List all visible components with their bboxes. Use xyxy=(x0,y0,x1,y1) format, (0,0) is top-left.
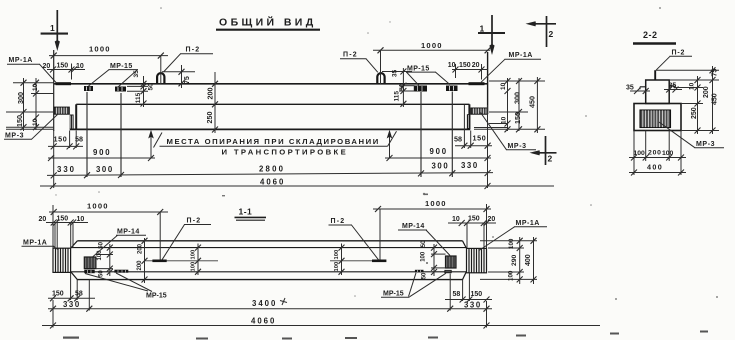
dimension row 330/300/2800/300/330 xyxy=(47,92,493,179)
section plate MP-3 (hatched) xyxy=(640,110,671,128)
section mark 2 (top) xyxy=(526,16,557,47)
plan left chamfers xyxy=(71,241,78,280)
svg-text:100: 100 xyxy=(97,250,103,261)
dimension 20/150/10 (top left end) xyxy=(43,63,86,80)
svg-text:75: 75 xyxy=(184,76,191,84)
svg-text:75: 75 xyxy=(712,69,719,77)
plan dimension 1000 (left) xyxy=(49,202,168,260)
svg-text:МР-1А: МР-1А xyxy=(516,220,540,227)
plan right end plate MP-1A (hatched) xyxy=(467,248,487,272)
plan inner top edge xyxy=(71,247,467,249)
plate MP-1A right (top face) xyxy=(469,82,485,85)
svg-text:330: 330 xyxy=(57,165,76,174)
svg-text:1-1: 1-1 xyxy=(239,207,253,217)
svg-text:200: 200 xyxy=(206,88,215,100)
svg-text:20: 20 xyxy=(488,216,496,223)
svg-text:200: 200 xyxy=(648,150,662,157)
dimension cluster 35/50/115 xyxy=(127,70,155,107)
plate MP-3 left (hatched) xyxy=(54,107,69,114)
svg-text:100: 100 xyxy=(421,251,427,262)
plan right chamfers xyxy=(463,241,467,280)
plan dimension 20/150/10 (left) xyxy=(39,216,89,249)
section bottom part outline xyxy=(634,104,681,131)
right step bar (hatched end strip) xyxy=(467,114,470,129)
dimension 1000 (top right) xyxy=(373,41,491,84)
right vertical dims 10/300/450/150/10 xyxy=(474,77,545,133)
svg-text:10: 10 xyxy=(500,82,507,90)
plan 50/100/50 dim right xyxy=(421,240,446,279)
svg-text:100: 100 xyxy=(508,270,515,281)
beam top edge xyxy=(54,83,488,85)
svg-text:115: 115 xyxy=(393,91,400,102)
svg-text:ОБЩИЙ ВИД: ОБЩИЙ ВИД xyxy=(219,16,317,29)
lifting loop P-2 left xyxy=(157,73,164,83)
svg-text:И ТРАНСПОРТИРОВКЕ: И ТРАНСПОРТИРОВКЕ xyxy=(222,147,349,156)
svg-text:МР-3: МР-3 xyxy=(508,143,527,150)
plan outer top edge xyxy=(77,240,462,242)
beam middle joint line xyxy=(76,103,469,105)
note text МЕСТА ОПИРАНИЯ xyxy=(154,131,397,156)
dimension 150/58 (lower left) xyxy=(48,131,83,150)
svg-text:400: 400 xyxy=(525,254,532,266)
plan MP-14 square left (hatched) xyxy=(84,257,96,269)
svg-text:100: 100 xyxy=(334,262,340,272)
svg-text:10: 10 xyxy=(452,216,460,223)
svg-text:10: 10 xyxy=(76,63,84,70)
plan dimension 58/150 (lower right) xyxy=(445,273,492,303)
svg-text:10: 10 xyxy=(689,82,696,90)
svg-text:100: 100 xyxy=(662,150,674,157)
plan loop bar right xyxy=(330,259,386,262)
svg-text:330: 330 xyxy=(461,161,479,170)
svg-text:1000: 1000 xyxy=(425,199,447,208)
plate MP-15 c xyxy=(414,86,427,92)
dimension 35 (section left) xyxy=(626,85,650,95)
plate MP-1A left (top face) xyxy=(56,82,72,85)
plan 50/100/50 dim left xyxy=(96,241,113,277)
beam bottom edge xyxy=(70,128,471,130)
svg-text:50: 50 xyxy=(421,240,427,247)
svg-text:50: 50 xyxy=(98,270,104,277)
svg-text:35: 35 xyxy=(133,70,140,78)
svg-text:П-2: П-2 xyxy=(331,218,346,225)
left step bar (hatched end strip) xyxy=(70,115,74,130)
left vertical dims 300/150 and 10/10 xyxy=(6,78,54,131)
svg-text:58: 58 xyxy=(75,135,83,144)
section top part outline xyxy=(640,80,674,104)
label MP-1A left + leader xyxy=(7,57,56,83)
svg-text:МР-3: МР-3 xyxy=(5,133,24,140)
svg-text:300: 300 xyxy=(16,92,25,104)
plan loop cross-dim right 100/100 xyxy=(334,244,345,276)
plan loop width dim 200/200 (left) xyxy=(137,238,147,283)
svg-text:150: 150 xyxy=(459,62,471,69)
label MP-3 left + leader xyxy=(4,115,58,140)
label MP-1A right + leader xyxy=(481,52,541,82)
svg-text:4060: 4060 xyxy=(251,317,276,326)
svg-text:400: 400 xyxy=(647,163,663,172)
plan loop cross-dim left 100/100 xyxy=(191,244,202,276)
label MP-3 (section) + leader xyxy=(659,122,724,148)
plan right-side width dims 100/290/100 and 400 xyxy=(480,237,537,284)
svg-text:35: 35 xyxy=(669,83,677,90)
svg-text:МР-1А: МР-1А xyxy=(509,52,533,59)
svg-text:4060: 4060 xyxy=(260,178,285,187)
plan loop bar left xyxy=(145,259,219,262)
svg-text:900: 900 xyxy=(93,148,111,157)
svg-text:МР-14: МР-14 xyxy=(402,223,425,230)
svg-text:МР-1А: МР-1А xyxy=(23,240,47,247)
label P-2 right + leader xyxy=(340,52,378,73)
plate MP-15 d xyxy=(446,86,458,92)
label P-2 left + leader xyxy=(164,47,214,73)
svg-text:58: 58 xyxy=(75,291,83,298)
plan left end plate MP-1A (hatched) xyxy=(53,248,71,272)
dimension 10/150/20 (top right end) xyxy=(448,62,488,80)
svg-text:150: 150 xyxy=(513,112,522,124)
svg-text:50: 50 xyxy=(148,83,155,91)
dimension 75 (left loop) xyxy=(162,65,195,88)
plate MP-15 a xyxy=(84,86,93,91)
svg-text:1000: 1000 xyxy=(89,45,111,54)
svg-text:100: 100 xyxy=(334,250,340,260)
svg-text:10: 10 xyxy=(448,62,456,69)
svg-text:200: 200 xyxy=(138,243,144,254)
svg-text:330: 330 xyxy=(464,301,482,310)
plate MP-3 right (hatched) xyxy=(471,108,487,114)
svg-text:МР-15: МР-15 xyxy=(110,63,133,70)
svg-text:100: 100 xyxy=(634,150,646,157)
svg-text:П-2: П-2 xyxy=(187,218,202,225)
label MP-15 right + leaders xyxy=(406,66,450,86)
svg-text:150: 150 xyxy=(57,63,69,70)
plan label MP-14 left + leader xyxy=(93,229,147,258)
svg-text:250: 250 xyxy=(691,107,698,119)
section mark 1 (left) xyxy=(41,10,68,51)
beam left end line xyxy=(53,50,55,131)
section mark 1 (right) xyxy=(478,15,505,55)
svg-text:150: 150 xyxy=(468,216,480,223)
plan label MP-1A left + leader xyxy=(22,240,59,251)
svg-text:10: 10 xyxy=(32,83,39,91)
dimension 58/150 (lower right) xyxy=(454,105,492,149)
dimension 35 (section right) xyxy=(664,83,682,93)
svg-text:1000: 1000 xyxy=(87,202,109,211)
svg-text:П-2: П-2 xyxy=(186,47,201,54)
plan MP-15 strip left a xyxy=(84,270,94,274)
plan label MP-14 right + leader xyxy=(398,223,450,256)
svg-text:1000: 1000 xyxy=(421,41,443,50)
svg-text:290: 290 xyxy=(511,254,518,266)
svg-text:150: 150 xyxy=(473,134,487,143)
section bottom dims 100/200/100 xyxy=(629,131,686,176)
section mark 2 (bottom) xyxy=(530,136,557,165)
svg-text:МР-15: МР-15 xyxy=(383,291,404,298)
svg-text:150: 150 xyxy=(471,291,483,298)
svg-text:100: 100 xyxy=(191,262,197,272)
svg-text:58: 58 xyxy=(453,291,461,298)
svg-text:150: 150 xyxy=(52,291,64,298)
svg-text:150: 150 xyxy=(15,115,24,127)
svg-text:200: 200 xyxy=(703,86,710,98)
plan label MP-15 right + leaders xyxy=(381,273,446,298)
plan dimension 10/150/20 (right) xyxy=(448,216,496,249)
svg-text:10: 10 xyxy=(501,116,508,124)
section loop P-2 wire xyxy=(654,70,656,80)
svg-text:150: 150 xyxy=(54,135,68,144)
mid vertical dim 200/250 xyxy=(205,72,218,133)
svg-text:П-2: П-2 xyxy=(343,52,358,59)
svg-text:200: 200 xyxy=(137,260,143,271)
title 1-1 xyxy=(235,207,267,221)
svg-text:58: 58 xyxy=(454,135,462,144)
svg-text:300: 300 xyxy=(96,165,114,174)
label MP-3 right + leader xyxy=(481,113,537,151)
svg-text:450: 450 xyxy=(712,93,719,105)
plan inner bottom edge xyxy=(71,271,467,273)
plan label P-2 right + leader xyxy=(329,218,379,260)
svg-text:П-2: П-2 xyxy=(672,50,686,57)
svg-text:20: 20 xyxy=(39,216,47,223)
label P-2 (section) + leader xyxy=(656,50,692,71)
svg-text:35: 35 xyxy=(626,85,634,92)
svg-text:3400: 3400 xyxy=(252,299,277,308)
plan label P-2 left + leader xyxy=(162,218,211,260)
plan label MP-15 left + leaders xyxy=(85,273,167,300)
svg-text:330: 330 xyxy=(63,300,81,309)
svg-text:МЕСТА ОПИРАНИЯ ПРИ СКЛАДИРОВАН: МЕСТА ОПИРАНИЯ ПРИ СКЛАДИРОВАНИИ xyxy=(167,137,380,146)
plan MP-15 strip left b xyxy=(114,270,128,273)
title: ОБЩИЙ ВИД xyxy=(216,16,320,30)
plan dimension 150/58 (lower left) xyxy=(48,273,95,302)
svg-text:МР-14: МР-14 xyxy=(117,229,140,236)
plan MP-15 strip right a xyxy=(415,270,424,273)
svg-text:МР-15: МР-15 xyxy=(146,293,167,300)
svg-text:10: 10 xyxy=(77,216,85,223)
lower part left edge xyxy=(75,104,77,129)
plan MP-15 strip right b xyxy=(445,270,451,272)
svg-text:115: 115 xyxy=(135,92,142,103)
dimension 1000 (top left) xyxy=(49,45,168,85)
beam right end line xyxy=(487,52,489,114)
svg-text:300: 300 xyxy=(432,162,450,171)
svg-text:300: 300 xyxy=(513,92,522,104)
svg-text:450: 450 xyxy=(528,96,537,108)
svg-text:150: 150 xyxy=(57,216,69,223)
svg-text:2-2: 2-2 xyxy=(643,30,658,40)
dimension 900 (left) + support arrow xyxy=(48,130,155,161)
plan outer bottom edge xyxy=(77,279,462,281)
svg-text:2: 2 xyxy=(549,29,554,39)
svg-text:50: 50 xyxy=(399,83,406,91)
svg-text:2: 2 xyxy=(548,154,553,164)
plan dimension 4060 xyxy=(42,300,600,329)
svg-text:10: 10 xyxy=(32,118,39,126)
svg-text:1: 1 xyxy=(480,24,485,34)
section right-side dims 10/200/250 and 75/450 xyxy=(656,66,719,134)
svg-text:900: 900 xyxy=(430,147,448,156)
svg-text:250: 250 xyxy=(205,112,214,124)
lifting loop P-2 right xyxy=(377,73,384,83)
dimension 4060 (top view) xyxy=(40,105,554,189)
plan dimension 1000 (right) xyxy=(373,199,491,260)
svg-text:35: 35 xyxy=(392,69,399,77)
section dimension 400 xyxy=(629,163,686,176)
svg-text:МР-1А: МР-1А xyxy=(9,57,33,64)
plan MP-14 square right (hatched) xyxy=(446,256,457,268)
dimension cluster 35/50/115 (right) xyxy=(382,68,415,107)
svg-text:50: 50 xyxy=(422,272,428,279)
plan dimension row 330/3400/330 xyxy=(48,274,492,312)
svg-text:100: 100 xyxy=(508,238,515,249)
svg-text:МР-3: МР-3 xyxy=(696,141,715,148)
title 2-2 xyxy=(633,30,676,44)
svg-text:1: 1 xyxy=(50,23,55,33)
svg-text:2800: 2800 xyxy=(259,165,285,174)
plate MP-15 b xyxy=(115,87,126,92)
svg-text:20: 20 xyxy=(472,62,480,69)
label MP-15 left + leaders xyxy=(89,63,139,87)
dimension 900 (right) + support arrow xyxy=(385,130,491,161)
plan label MP-1A right + leader xyxy=(479,220,547,251)
svg-text:100: 100 xyxy=(191,250,197,260)
lower part right edge xyxy=(468,104,470,129)
svg-text:20: 20 xyxy=(43,63,51,70)
